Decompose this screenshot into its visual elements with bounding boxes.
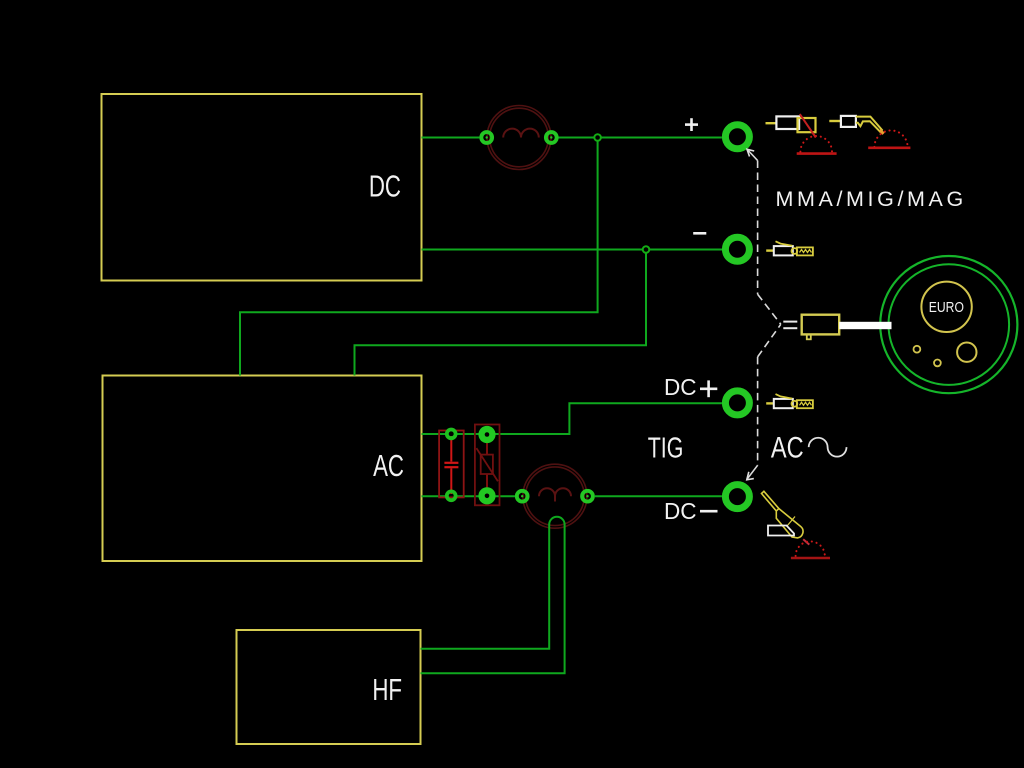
electrode holder icon head: [798, 118, 816, 132]
TIG torch cup divider: [787, 517, 795, 527]
svg-text:EURO: EURO: [929, 299, 964, 316]
varistor RV1 diagonal: [476, 448, 498, 481]
TIG torch icon neck: [762, 491, 779, 511]
dashed fork upper: [758, 294, 781, 324]
block AC source: [103, 376, 422, 562]
svg-text:DC: DC: [369, 169, 401, 203]
terminal ring DC-: [725, 485, 749, 509]
wire DC+ output: [422, 137, 480, 139]
equals sign plug link: [783, 322, 797, 329]
svg-text:MMA/MIG/MAG: MMA/MIG/MAG: [776, 187, 967, 211]
wire AC bottom output: [422, 495, 515, 497]
EURO pin large: [957, 343, 976, 362]
terminal ring DC+: [725, 391, 749, 415]
inductor L1 terminal right: [546, 132, 557, 143]
arrowhead to + terminal: [747, 149, 754, 156]
wire HF bottom: [421, 525, 565, 674]
plus sign DC+: [700, 380, 717, 397]
inductor L1 core circle: [487, 106, 551, 170]
svg-text:DC: DC: [664, 374, 697, 401]
dashed pointer line bottom: [747, 357, 758, 480]
terminal ring +: [725, 125, 749, 149]
svg-text:DC: DC: [664, 498, 697, 525]
EURO connector inner ring: [889, 264, 1010, 385]
wire inductor L1 to + terminal: [559, 137, 722, 139]
MMA arc dotted: [800, 136, 832, 152]
EURO connector center socket: [921, 282, 971, 332]
electrode holder icon stub: [766, 122, 777, 124]
arrowhead to DC- terminal: [747, 472, 754, 480]
dashed pointer line top: [747, 150, 757, 295]
node A junction: [594, 134, 601, 141]
plug cable white bar: [839, 322, 891, 329]
electrode holder icon grip: [776, 116, 799, 129]
inductor L2 winding: [539, 488, 571, 501]
capacitor C1 lead: [450, 436, 452, 494]
minus sign DC-: [700, 510, 718, 513]
plus sign output: [685, 118, 698, 131]
inductor L1 terminal left: [481, 132, 492, 143]
TIG workpiece baseline: [791, 557, 830, 560]
varistor RV1 terminal top: [478, 426, 495, 443]
block HF ignition unit: [237, 630, 421, 744]
wire HF coupling loop: [549, 517, 564, 525]
varistor RV1 terminal bottom: [478, 487, 495, 504]
wire HF top: [421, 525, 550, 649]
MIG torch icon stub: [829, 120, 841, 122]
capacitor C1 terminal bottom: [447, 491, 456, 500]
MIG torch body: [856, 117, 883, 133]
wire node B down: [355, 253, 647, 376]
inductor L2 terminal right: [582, 491, 593, 502]
svg-text:AC: AC: [373, 449, 404, 483]
MIG torch tip: [880, 130, 884, 134]
EURO pin small 1: [914, 346, 921, 353]
MIG torch icon connector: [841, 116, 856, 127]
varistor RV1 housing: [475, 425, 500, 506]
MMA workpiece baseline: [797, 152, 837, 155]
inductor L2 terminal left: [517, 491, 528, 502]
minus sign output: [693, 232, 706, 235]
work clamp icon lower: [766, 394, 813, 408]
TIG torch icon body: [776, 509, 803, 538]
TIG workpiece flag: [768, 526, 794, 536]
wire inductor L2 to DC- terminal: [595, 495, 722, 497]
plug connector tab: [807, 334, 811, 339]
work clamp icon upper: [766, 241, 813, 255]
TIG arc dotted: [796, 541, 825, 556]
EURO pin small 2: [934, 360, 941, 367]
wire DC- output: [422, 249, 723, 251]
svg-text:HF: HF: [372, 673, 402, 707]
inductor L1 winding: [503, 129, 539, 138]
capacitor C1 plates: [444, 463, 458, 467]
MIG arc dotted: [874, 130, 907, 147]
plug connector body: [802, 315, 840, 335]
inductor L2 core circle: [523, 464, 587, 528]
sine wave symbol: [809, 438, 847, 457]
node B junction: [643, 246, 650, 253]
varistor RV1 body: [481, 455, 493, 474]
dashed fork lower: [758, 324, 781, 357]
capacitor C1 housing: [439, 431, 464, 498]
block DC rectifier: [102, 94, 422, 281]
svg-text:TIG: TIG: [648, 433, 684, 465]
wire AC top output: [422, 403, 722, 434]
TIG electrode spark: [803, 539, 809, 544]
varistor RV1 leads: [486, 436, 488, 494]
EURO connector outer ring: [880, 256, 1017, 393]
electrode rod: [800, 114, 816, 137]
MIG workpiece baseline: [868, 147, 910, 150]
svg-text:AC: AC: [771, 431, 804, 464]
terminal ring -: [725, 237, 749, 261]
wire node A down: [240, 141, 598, 376]
capacitor C1 terminal top: [447, 430, 456, 439]
